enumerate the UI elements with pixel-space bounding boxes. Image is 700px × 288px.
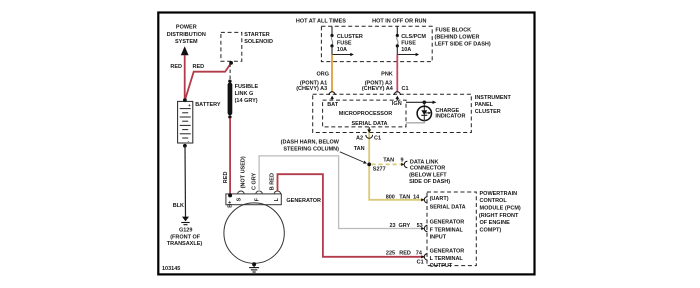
fuse block box [321,26,432,61]
svg-text:RED: RED [399,251,411,257]
svg-text:DISTRIBUTION: DISTRIBUTION [167,32,206,38]
node S277 [367,163,371,167]
svg-text:225: 225 [386,251,395,257]
wire solenoid to fusible link (dashed) [229,64,231,81]
svg-text:CLS/PCM: CLS/PCM [401,34,426,40]
svg-text:S: S [236,197,242,201]
svg-text:L TERMINAL: L TERMINAL [430,256,464,262]
svg-text:(BEHIND LOWER: (BEHIND LOWER [435,34,480,40]
connector arc data link pin 9 [404,161,407,167]
svg-text:PANEL: PANEL [475,102,494,108]
svg-text:GENERATOR: GENERATOR [286,198,321,204]
wire PNK fuse to cluster IGN [396,55,398,93]
svg-text:POWER: POWER [176,25,197,31]
node solenoid terminal [229,61,233,65]
svg-text:14: 14 [413,195,420,201]
svg-text:-: - [188,139,190,144]
arrow into BAT [330,96,334,99]
svg-text:B+: B+ [228,201,234,208]
svg-text:800: 800 [386,195,395,201]
connector arrow+arc GRY into PCM pin 53 [421,227,424,230]
svg-text:FUSE: FUSE [401,40,416,46]
svg-text:C1: C1 [374,136,381,142]
fuse CLS/PCM FUSE 10A [396,26,419,56]
svg-text:LEFT SIDE OF DASH): LEFT SIDE OF DASH) [435,41,491,47]
svg-text:FUSE: FUSE [337,40,352,46]
wire TAN dashed to data link connector [372,163,402,165]
wire GRY generator F terminal to PCM [259,156,424,229]
svg-text:SOLENOID: SOLENOID [244,39,273,45]
svg-text:OF ENGINE: OF ENGINE [480,220,511,226]
svg-text:10A: 10A [337,47,347,53]
svg-text:FUSE BLOCK: FUSE BLOCK [435,28,471,34]
svg-text:INPUT: INPUT [430,234,447,240]
svg-text:(14 GRY): (14 GRY) [235,98,258,104]
wire RED battery to power distribution [184,55,186,100]
ground G129 label [167,228,203,248]
svg-text:G129: G129 [179,228,192,234]
connector arrow+arc RED into PCM pin 74 [421,255,424,258]
svg-text:CLUSTER: CLUSTER [337,34,363,40]
svg-text:HOT AT ALL TIMES: HOT AT ALL TIMES [296,19,346,25]
svg-text:TAN: TAN [354,146,365,152]
fusible link G [228,80,233,119]
svg-text:SERIAL DATA: SERIAL DATA [430,204,466,210]
svg-text:GENERATOR: GENERATOR [430,219,465,225]
svg-text:103145: 103145 [162,266,180,272]
wire RED generator L terminal to PCM [278,174,425,257]
pointer line to S277 [340,152,364,162]
svg-text:TAN: TAN [383,158,394,164]
wire ORG fuse to cluster BAT [331,55,333,93]
svg-text:(NOT USED): (NOT USED) [240,156,246,188]
connector arc BAT [329,92,335,95]
svg-text:INSTRUMENT: INSTRUMENT [475,95,512,101]
svg-text:STARTER: STARTER [244,32,270,38]
svg-text:FUSIBLE: FUSIBLE [235,84,259,90]
terminal bump L [274,191,281,194]
instrument panel cluster box [313,94,472,132]
node battery negative junction [183,144,187,148]
svg-text:CLUSTER: CLUSTER [475,109,501,115]
terminal bump S [238,191,245,194]
node generator B+ terminal [228,193,232,197]
ground generator case [249,262,259,272]
svg-text:OUTPUT: OUTPUT [430,263,453,269]
svg-text:INDICATOR: INDICATOR [435,114,465,120]
svg-text:GRY: GRY [399,223,411,229]
svg-text:A2: A2 [356,136,363,142]
terminal bump F [256,191,263,194]
svg-text:HOT IN OFF OR RUN: HOT IN OFF OR RUN [372,19,426,25]
svg-text:(UART): (UART) [430,196,449,202]
svg-text:BLK: BLK [173,203,184,209]
arrow into IGN [396,96,400,99]
svg-text:BATTERY: BATTERY [195,102,221,108]
svg-text:B RED: B RED [269,173,275,190]
svg-text:(DASH HARN, BELOW: (DASH HARN, BELOW [281,140,340,146]
svg-text:RED: RED [170,64,182,70]
svg-text:RED: RED [192,64,204,70]
svg-text:DATA LINK: DATA LINK [410,159,439,165]
svg-text:CONTROL: CONTROL [480,198,508,204]
svg-text:SYSTEM: SYSTEM [175,39,198,45]
svg-text:F TERMINAL: F TERMINAL [430,227,464,233]
svg-text:74: 74 [416,251,423,257]
wire TAN serial data to PCM [369,128,424,200]
svg-text:(FRONT OF: (FRONT OF [170,235,201,241]
node POWER DISTRIBUTION SYSTEM label [167,25,206,45]
svg-text:L: L [274,197,280,201]
svg-text:IGN: IGN [392,101,402,107]
off-page arrow to power distribution [181,46,189,55]
svg-text:C1: C1 [402,86,409,92]
battery [178,101,193,143]
wire BLK battery to ground [184,146,187,217]
svg-text:LINK G: LINK G [235,91,254,97]
wire RED battery to starter solenoid [185,63,231,100]
fuse CLUSTER FUSE 10A [330,26,353,56]
wire charge indicator return [406,121,424,123]
svg-text:RED: RED [223,172,229,184]
svg-text:STEERING COLUMN): STEERING COLUMN) [283,146,339,152]
wire RED fusible link to generator B+ [229,118,231,195]
svg-text:BAT: BAT [327,102,339,108]
svg-text:(CHEVY) A3: (CHEVY) A3 [296,86,327,92]
svg-text:TRANSAXLE): TRANSAXLE) [167,241,203,247]
svg-text:(CHEVY) A4: (CHEVY) A4 [362,86,394,92]
powertrain control module box [427,192,476,266]
svg-text:CONNECTOR: CONNECTOR [410,166,445,172]
svg-text:SIDE OF DASH): SIDE OF DASH) [409,179,450,185]
node battery positive junction [183,98,187,102]
connector A2/C1 serial data out [366,127,373,138]
svg-text:MODULE (PCM): MODULE (PCM) [480,206,521,212]
svg-text:+: + [188,104,191,109]
generator terminal box [226,194,281,205]
svg-text:C GRY: C GRY [252,172,258,190]
connector arc IGN [394,92,400,95]
svg-text:GENERATOR: GENERATOR [430,249,465,255]
starter solenoid box [221,32,242,61]
svg-text:MICROPROCESSOR: MICROPROCESSOR [339,111,393,117]
svg-text:10A: 10A [401,47,411,53]
charge indicator circuit wire [406,101,436,111]
svg-text:C1: C1 [417,260,424,266]
svg-text:POWERTRAIN: POWERTRAIN [480,191,518,197]
svg-text:53: 53 [417,223,423,229]
svg-text:23: 23 [390,223,396,229]
generator body circle [224,203,284,263]
ground G129 [181,217,189,225]
connector arrow+arc TAN into PCM pin 14 [421,198,424,201]
svg-text:TAN: TAN [399,195,410,201]
svg-text:COMPT): COMPT) [480,228,502,234]
svg-text:PNK: PNK [381,71,393,77]
svg-text:SERIAL DATA: SERIAL DATA [351,121,387,127]
svg-text:ORG: ORG [316,71,329,77]
svg-text:S277: S277 [373,166,386,172]
microprocessor box [323,100,406,127]
svg-text:9: 9 [401,158,404,164]
svg-text:(BELOW LEFT: (BELOW LEFT [409,172,447,178]
border frame [158,13,534,275]
svg-text:(RIGHT FRONT: (RIGHT FRONT [479,213,519,219]
svg-text:F: F [255,197,261,201]
charge indicator lamp U? [417,106,431,120]
